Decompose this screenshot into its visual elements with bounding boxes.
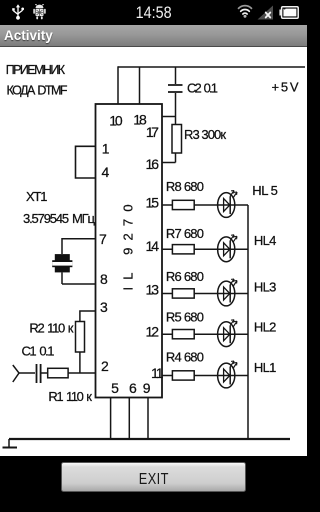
adb android icon [33,4,46,20]
svg-text:R4 680: R4 680 [166,350,204,365]
svg-text:IL 9270: IL 9270 [121,197,136,290]
resistor R1 [48,368,68,378]
wire ground bus [9,438,290,440]
wire pin15 row [162,204,248,206]
capacitor C1 [37,364,41,383]
resistor R2 [76,322,85,353]
status bar [0,0,307,25]
LED HL2 [218,320,237,347]
LED HL3 [218,279,237,306]
svg-text:16: 16 [146,156,160,172]
wire pin17 stub [162,116,176,118]
resistor R4 [172,371,194,380]
wire R1 to pin2 [68,372,95,374]
LED HL1 [218,361,237,388]
svg-text:HL2: HL2 [254,320,277,335]
svg-text:R2 110 к: R2 110 к [29,321,73,336]
svg-text:4: 4 [102,164,110,180]
svg-text:R3 300к: R3 300к [184,127,226,142]
svg-text:3.579545 МГц: 3.579545 МГц [23,211,96,226]
wire rail to pin10 [117,66,119,104]
crystal XT1 [52,254,72,272]
resistor R8 [172,200,194,209]
svg-text:КОДА DTMF: КОДА DTMF [7,84,68,98]
wire C2 to pin17 node [175,93,177,117]
wire pin13 row [162,293,248,295]
wire pin5 down [110,398,112,440]
wire pin3 stub [80,311,96,322]
svg-text:2: 2 [101,358,109,374]
svg-text:C2 0.1: C2 0.1 [187,81,218,96]
wifi icon [237,4,253,18]
svg-text:11: 11 [151,365,164,381]
svg-text:C1 0.1: C1 0.1 [22,344,55,359]
svg-text:R6 680: R6 680 [166,269,204,284]
wire rail to C2 [175,67,177,84]
wire pin14 row [162,248,248,250]
time [0,0,307,27]
svg-text:R5 680: R5 680 [166,310,204,325]
resistor R3 [172,125,182,154]
svg-text:3: 3 [100,299,108,315]
svg-text:+ 5 V: + 5 V [272,80,299,95]
resistor R7 [172,245,194,254]
title bar [0,25,307,47]
IC U1 IL9270 body [96,104,163,398]
battery icon [279,6,299,19]
signal icon with x [257,5,274,20]
svg-text:13: 13 [146,282,160,298]
svg-text:XT1: XT1 [26,189,48,204]
svg-text:10: 10 [109,113,123,129]
wire R3 to pin16 [162,153,176,163]
svg-text:17: 17 [146,124,159,140]
svg-text:R1 110 к: R1 110 к [48,389,92,404]
svg-text:R8 680: R8 680 [166,179,204,194]
wire pin12 row [162,333,248,335]
LED HL4 [218,235,237,262]
svg-text:HL 5: HL 5 [252,183,278,198]
svg-text:9: 9 [143,380,151,396]
svg-text:5: 5 [111,380,119,396]
resistor R5 [172,330,194,339]
ground symbol [8,439,10,447]
svg-text:12: 12 [146,324,160,340]
wire LED bus right [247,205,249,439]
wire pin7 stub [62,239,96,254]
wire crystal to pin8 [62,272,96,284]
svg-text:8: 8 [100,271,108,287]
wire rail to pin18 [139,67,141,104]
usb icon [12,4,24,20]
bottom bar with exit button [0,456,307,512]
content: circuit schematic [0,47,307,456]
connector box pins 1,4 [76,146,96,178]
wire input to C1 [19,372,35,374]
wire +5V rail [118,66,305,68]
svg-text:HL3: HL3 [254,280,277,295]
svg-text:HL4: HL4 [254,233,277,248]
svg-text:6: 6 [129,380,137,396]
svg-text:HL1: HL1 [254,360,277,375]
wire pin11 row [162,375,248,377]
wire C1 to R1 [42,372,48,374]
resistor R6 [172,289,194,298]
input chevron [13,365,19,382]
LED HL5 [218,191,237,218]
wire pin9 down [147,398,149,440]
svg-text:R7 680: R7 680 [166,226,204,241]
capacitor C2 [168,85,183,92]
svg-text:ПРИЕМНИК: ПРИЕМНИК [6,63,66,77]
wire R2 to pin2 node [79,352,81,373]
wire pin6 down [128,398,130,440]
svg-text:7: 7 [99,231,107,247]
svg-text:14: 14 [146,238,160,254]
svg-text:15: 15 [146,195,160,211]
svg-text:1: 1 [102,141,110,157]
